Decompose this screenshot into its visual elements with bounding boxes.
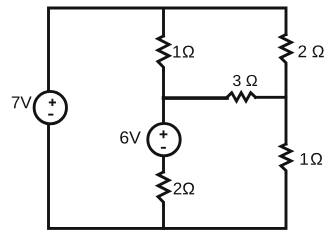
wire: middle branch bottom segment [162, 205, 165, 228]
wire: top-left loop (left rail up, top rail, right rail down to R2) [49, 8, 287, 91]
wire: middle branch between 6V source and R 2ohm [162, 156, 165, 172]
source V2 minus sign [161, 147, 166, 149]
wire: middle branch top segment [162, 8, 165, 36]
resistor R 1ohm bottom-right zigzag [281, 144, 291, 173]
label R4 1ohm (bottom right) [301, 153, 323, 165]
resistor R 2ohm bottom-middle zigzag [158, 172, 169, 205]
resistor R 3ohm horizontal zigzag [227, 93, 256, 101]
source V2 plus sign [160, 130, 168, 138]
label R1 1ohm (top middle) [173, 46, 194, 58]
wire: middle branch between R1 and 6V source [162, 70, 165, 123]
wire: right rail middle segment [285, 65, 288, 144]
label R5 2ohm (bottom middle) [174, 183, 195, 195]
label R2 2ohm (top right) [298, 45, 323, 57]
wire: middle horizontal right segment to right rail [256, 96, 287, 99]
source V1 minus sign [48, 114, 53, 116]
source V1 7V circle [34, 91, 66, 123]
resistor R 1ohm middle zigzag [158, 36, 169, 70]
label R3 3ohm [233, 75, 257, 86]
wire: right rail bottom, bottom rail, left rail up to source [49, 124, 287, 228]
source V1 plus sign [49, 99, 56, 106]
label V1 7V [12, 97, 32, 109]
resistor R 2ohm top-right zigzag [281, 35, 292, 66]
source V2 6V circle [148, 123, 180, 155]
wire: middle horizontal heavy segment to 3ohm [164, 96, 228, 100]
label V2 6V [120, 131, 140, 143]
